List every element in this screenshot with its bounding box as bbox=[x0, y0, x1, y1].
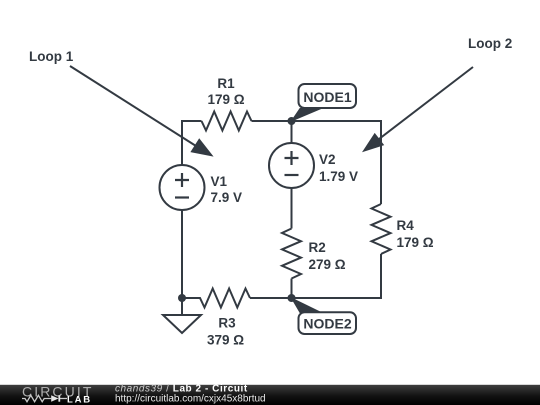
wire V1 bottom lead bbox=[181, 210, 183, 298]
label R4 value bbox=[397, 218, 434, 250]
ground stub bbox=[181, 298, 183, 315]
callout NODE2 bbox=[292, 298, 357, 334]
node dot at NODE2 junction bbox=[288, 294, 296, 302]
svg-text:NODE1: NODE1 bbox=[303, 89, 351, 105]
label V2 value bbox=[319, 152, 358, 184]
wire NODE1 to right branch corner bbox=[292, 121, 382, 204]
svg-text:1.79 V: 1.79 V bbox=[319, 169, 358, 184]
svg-text:R2: R2 bbox=[309, 240, 326, 255]
V1 minus sign bbox=[175, 196, 189, 198]
label R3 value bbox=[207, 316, 244, 348]
svg-text:179 Ω: 179 Ω bbox=[207, 92, 244, 107]
svg-text:V2: V2 bbox=[319, 152, 336, 167]
ground triangle bbox=[163, 315, 201, 333]
svg-text:NODE2: NODE2 bbox=[303, 316, 351, 332]
resistor R4 zigzag bbox=[372, 204, 391, 254]
svg-text:Loop 1: Loop 1 bbox=[29, 49, 74, 64]
svg-text:7.9 V: 7.9 V bbox=[211, 190, 243, 205]
node dot bottom-left junction bbox=[178, 294, 186, 302]
svg-text:R1: R1 bbox=[217, 76, 235, 91]
svg-text:Loop 2: Loop 2 bbox=[468, 36, 512, 51]
voltage source V2 body bbox=[269, 143, 314, 188]
V2 plus sign bbox=[285, 151, 299, 165]
annotation Loop 2 arrow bbox=[362, 67, 473, 152]
svg-text:279 Ω: 279 Ω bbox=[309, 257, 346, 272]
svg-text:379 Ω: 379 Ω bbox=[207, 333, 244, 348]
resistor R2 zigzag bbox=[282, 229, 301, 279]
svg-text:179 Ω: 179 Ω bbox=[397, 235, 434, 250]
wire R3 to NODE2 bbox=[250, 297, 292, 299]
wire NODE2 to right branch bottom bbox=[292, 254, 382, 298]
footer logo diode bbox=[51, 395, 67, 402]
label R2 value bbox=[309, 240, 346, 272]
V1 plus sign bbox=[175, 173, 189, 187]
wire V2 to R2 bbox=[291, 188, 293, 229]
svg-text:LAB: LAB bbox=[67, 394, 92, 405]
svg-text:V1: V1 bbox=[211, 174, 228, 189]
V2 minus sign bbox=[285, 174, 299, 176]
node dot at NODE1 junction bbox=[288, 117, 296, 125]
annotation Loop 1 arrow bbox=[70, 66, 214, 157]
wire top-left segment (corner to R1) bbox=[182, 121, 202, 166]
resistor R3 zigzag bbox=[182, 289, 250, 308]
resistor R1 zigzag bbox=[202, 112, 252, 131]
voltage source V1 body bbox=[160, 165, 205, 210]
wire R1 to NODE1 bbox=[252, 120, 292, 122]
svg-text:R4: R4 bbox=[397, 218, 415, 233]
svg-text:R3: R3 bbox=[218, 316, 236, 331]
svg-text:http://circuitlab.com/cxjx45x8: http://circuitlab.com/cxjx45x8brtud bbox=[115, 394, 266, 405]
label R1 value bbox=[207, 76, 244, 107]
label V1 value bbox=[211, 174, 243, 205]
wire V2 top lead bbox=[291, 121, 293, 144]
wire R2 to NODE2 bbox=[291, 279, 293, 299]
callout NODE1 bbox=[292, 84, 357, 121]
footer logo resistor zigzag bbox=[22, 395, 51, 401]
